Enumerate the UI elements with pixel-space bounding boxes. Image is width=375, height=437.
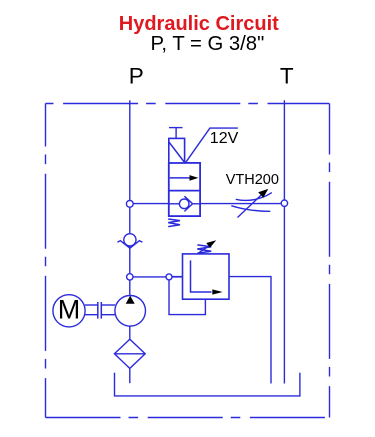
enclosure dashed border right edge	[329, 104, 331, 418]
svg-text:VTH200: VTH200	[226, 172, 279, 188]
svg-text:P, T = G 3/8": P, T = G 3/8"	[151, 33, 265, 55]
throttle valve VTH200 arcs	[231, 193, 271, 212]
wire: node row horizontal	[130, 276, 183, 278]
valve U1 closed-position check poppet	[169, 196, 200, 211]
pump P1	[115, 296, 146, 327]
solenoid cartridge valve U1 body	[169, 163, 200, 216]
relief valve RV1 internal flow path	[191, 260, 223, 294]
node: P line / relief row junction	[127, 274, 133, 280]
node: throttle / T line junction	[281, 200, 287, 206]
enclosure dashed border left edge	[45, 104, 47, 418]
solenoid A of U1	[169, 138, 185, 163]
wire: filter outlet	[129, 368, 131, 383]
motor M1	[53, 295, 85, 327]
enclosure dashed border top edge	[46, 103, 330, 105]
valve U1 return spring	[168, 219, 180, 227]
node: P line / main line junction	[126, 200, 133, 207]
leader line to 12V label	[186, 128, 238, 162]
relief valve RV1 body	[183, 254, 230, 299]
relief valve RV1 inlet stub	[172, 276, 183, 278]
svg-text:Hydraulic Circuit: Hydraulic Circuit	[119, 13, 279, 35]
filter F1	[114, 339, 145, 368]
valve U1 open-position flow arrow	[170, 175, 199, 181]
svg-text:T: T	[280, 64, 294, 89]
wire: relief valve drain loop	[169, 277, 205, 315]
enclosure dashed border bottom edge	[46, 417, 330, 419]
wire: T line vertical	[283, 100, 285, 383]
wire: P line vertical	[129, 100, 131, 295]
wire: pump outlet	[129, 326, 131, 339]
valve U1 position divider	[169, 190, 200, 192]
motor M1 shaft coupling	[85, 302, 115, 319]
check valve V1	[117, 234, 142, 249]
svg-text:M: M	[58, 295, 81, 325]
wire: main horizontal P-to-T line	[130, 203, 285, 205]
tank	[115, 373, 300, 396]
node: relief valve inlet	[166, 274, 172, 280]
throttle valve adjustment arrow	[238, 189, 269, 218]
svg-text:12V: 12V	[210, 130, 239, 147]
manual override plunger of U1	[169, 128, 183, 139]
relief valve RV1 adjustable spring	[197, 240, 216, 253]
wire: relief valve outlet to tank	[229, 277, 271, 384]
svg-text:P: P	[129, 64, 144, 89]
